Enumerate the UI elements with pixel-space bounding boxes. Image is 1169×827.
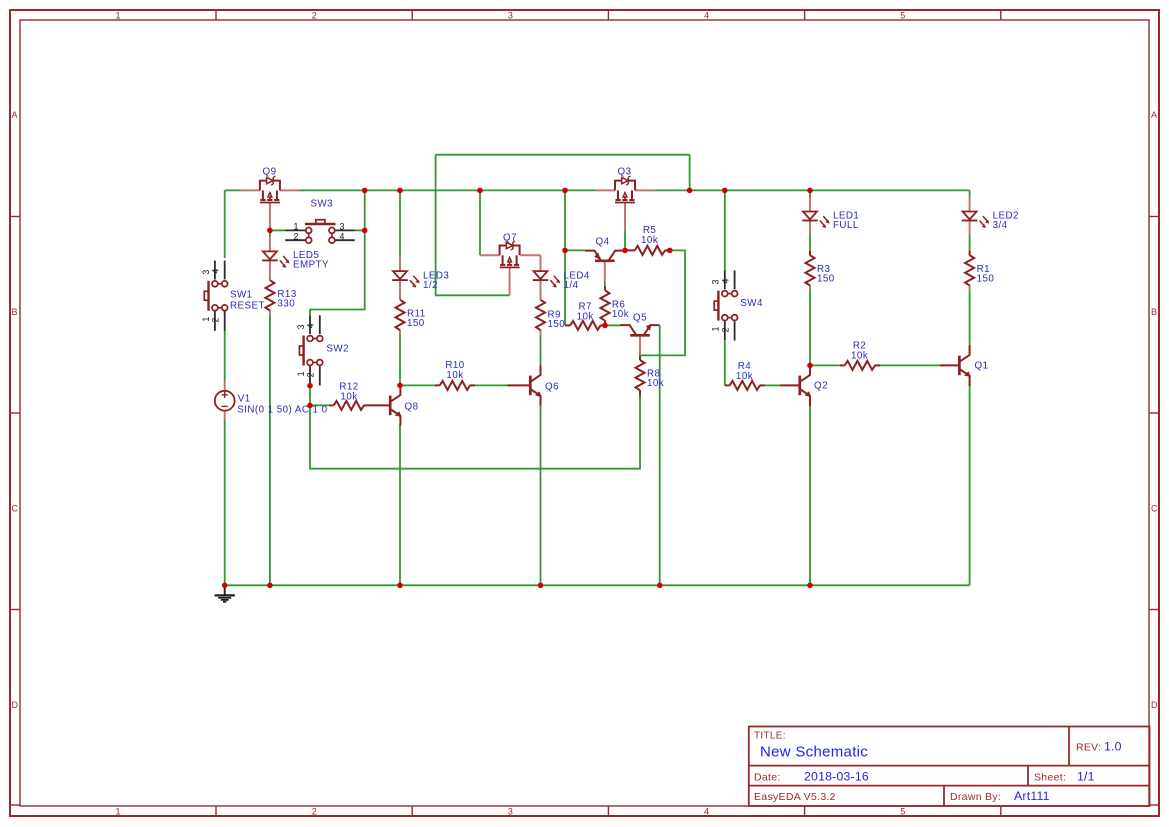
svg-text:A: A [12,110,18,120]
wire R5 right to Q5 base [640,250,685,355]
wire R12 left lead [310,404,330,406]
svg-text:1/4: 1/4 [564,280,579,291]
svg-text:Sheet:: Sheet: [1034,771,1066,783]
svg-text:EMPTY: EMPTY [293,260,329,271]
svg-text:5: 5 [900,807,905,817]
resistor R2 10k (horizontal) [840,361,880,370]
wire Q4 emitter link [565,249,586,251]
transistor Q3 (P-MOSFET) [596,176,655,231]
svg-text:D: D [12,700,19,710]
wire R10 left [400,384,435,386]
svg-text:Q3: Q3 [618,167,632,178]
wire R11 bottom to junction [399,335,401,385]
node R12 branch [307,403,313,409]
wire SW2 bottom to R12 junction [309,386,311,406]
LED LED3 [392,256,420,295]
svg-text:2: 2 [721,327,731,332]
wire Q5 base joint [639,355,641,359]
LED LED2 [962,197,990,236]
wire R9 bottom to Q6 collector [540,335,542,366]
svg-text:150: 150 [817,274,835,285]
svg-text:Q6: Q6 [545,382,559,393]
svg-text:1: 1 [115,807,120,817]
svg-text:C: C [12,504,19,514]
svg-text:3: 3 [711,279,721,284]
transistor Q7 (P-MOSFET) [480,241,541,295]
frame column ticks top [216,10,1001,20]
resistor R10 10k (horizontal) [435,381,475,390]
svg-text:4: 4 [211,268,221,273]
svg-text:B: B [1151,307,1157,317]
node ground bus x270 [267,583,273,589]
wire SW3 left link [270,229,285,231]
svg-text:C: C [1151,504,1158,514]
svg-text:330: 330 [277,299,295,310]
wire R4 to Q2 base [765,384,781,386]
svg-text:10k: 10k [446,370,463,381]
node bus x565 [562,188,568,194]
switch SW2 [299,315,322,385]
wire V1 to ground bus [224,420,226,586]
svg-text:New Schematic: New Schematic [760,744,868,761]
node bus x810 [807,188,813,194]
resistor R11 150 (vertical) [396,295,405,335]
wire Q2 emitter to ground bus [809,406,811,585]
svg-text:4: 4 [704,10,709,20]
wire SW4 top from bus [724,190,726,270]
resistor R13 330 (vertical) [265,275,274,315]
wire Q5 emitter to ground bus [659,325,661,585]
JUNCTION DOTS [222,188,813,589]
switch SW3 (horizontal) [285,220,355,243]
node ground bus x660 [657,583,663,589]
svg-text:Q9: Q9 [263,167,277,178]
wire SW4 bottom to R4 [724,341,726,385]
svg-text:3: 3 [508,10,513,20]
svg-text:RESET: RESET [230,300,265,311]
pin numbers SW1 [201,268,221,322]
svg-text:4: 4 [340,231,345,241]
transistor Q1 (NPN) [940,346,971,386]
node SW2 bottom [307,383,313,389]
wire R12 junction down and across to R8 bottom [310,396,640,469]
svg-text:1: 1 [115,10,120,20]
transistor Q5 (NPN rotated) [620,324,659,356]
node bus x725 [722,188,728,194]
svg-text:D: D [1151,700,1158,710]
svg-text:1.0: 1.0 [1104,740,1122,754]
node R7 R6 Q5 junction [602,323,608,329]
wire Q2 collector junction to R2 [810,364,840,366]
pin numbers SW3 [294,221,345,241]
svg-text:2: 2 [294,231,299,241]
node bus x690 [687,188,693,194]
title block [749,727,1150,807]
frame row ticks right [1149,217,1159,806]
svg-text:SW3: SW3 [311,199,334,210]
svg-text:A: A [1151,110,1157,120]
wire Q8 emitter to ground bus [399,426,401,586]
svg-text:5: 5 [900,10,905,20]
svg-text:150: 150 [548,319,566,330]
node SW3 right junction [362,228,368,234]
node Q4 collector / Q3 gate / R5 [622,248,628,254]
svg-text:V1: V1 [238,394,251,405]
wire R3 bottom to Q2 collector junction [809,291,811,366]
node ground bus x540 [538,583,544,589]
wire SW1 to V1 [224,331,226,381]
svg-text:10k: 10k [612,309,629,320]
LED LED5 [262,237,290,275]
frame column ticks bottom [216,806,1001,816]
wire LED2 top from bus corner [969,190,971,197]
wire main bus left segment [225,189,241,191]
transistor Q9 (P-MOSFET) [241,176,299,230]
svg-text:Q4: Q4 [596,237,610,248]
svg-text:10k: 10k [851,351,868,362]
svg-text:1/1: 1/1 [1077,769,1095,783]
svg-text:150: 150 [407,318,425,329]
LED LED1 [802,197,830,236]
svg-text:10k: 10k [647,378,664,389]
svg-text:3: 3 [508,807,513,817]
svg-text:2: 2 [312,807,317,817]
wire x565 drop bus to R7 [564,190,566,325]
ground symbol [215,585,235,602]
wire R13 bottom to ground bus [269,315,271,585]
transistor Q6 (NPN) [507,366,541,406]
resistor R4 10k (horizontal) [725,381,765,390]
frame row letters left [12,110,19,710]
svg-text:2: 2 [306,372,316,377]
svg-text:SW1: SW1 [230,290,253,301]
resistor R8 10k (vertical) [636,355,645,395]
svg-text:Q5: Q5 [633,313,647,324]
resistor R3 150 (vertical) [806,235,815,291]
svg-text:1: 1 [711,326,721,331]
frame column numbers bottom [115,807,905,817]
svg-text:SW2: SW2 [326,344,349,355]
resistor R6 10k (vertical) [601,286,610,325]
resistor R9 150 (vertical) [536,295,545,335]
wire Q1 emitter to ground bus [969,386,971,585]
svg-text:Q2: Q2 [814,381,828,392]
resistor R1 150 (vertical) [965,235,974,291]
wire R2 right to Q1 base [880,364,940,366]
node ground bus x400 [397,583,403,589]
node Q2 collector junction [807,363,813,369]
wire top loop left drop to Q7 gate [436,155,510,296]
svg-text:Art111: Art111 [1014,789,1050,803]
node SW3 left junction [267,228,273,234]
wire R7 R6 junction to Q5 collector [605,324,621,326]
svg-text:1: 1 [296,371,306,376]
wire x365 riser bus to SW3 [364,190,366,230]
svg-text:2018-03-16: 2018-03-16 [804,769,869,783]
svg-text:4: 4 [306,323,316,328]
frame row letters right [1151,110,1158,710]
transistor Q2 (NPN) [780,366,811,406]
node bus x365 [362,188,368,194]
node R5 right [667,248,673,254]
svg-text:3/4: 3/4 [993,220,1008,231]
wire R1 bottom to Q1 collector [969,291,971,347]
pin numbers SW4 [711,278,731,332]
node ground bus x810 [807,583,813,589]
svg-text:10k: 10k [736,371,753,382]
resistor R7 10k (horizontal) [565,321,605,330]
wire top loop right drop to bus [689,155,691,191]
wire SW3 right link [355,229,365,231]
voltage source V1 [215,381,235,420]
svg-text:1: 1 [294,221,299,231]
svg-text:Q1: Q1 [975,361,989,372]
svg-text:10k: 10k [641,235,658,246]
svg-text:REV:: REV: [1076,742,1101,754]
svg-text:TITLE:: TITLE: [754,731,786,742]
svg-text:SW4: SW4 [740,298,763,309]
wire LED3 top from bus [399,190,401,256]
wire bottom ground bus [225,584,970,586]
switch SW4 [714,270,737,340]
svg-text:Date:: Date: [754,771,781,783]
svg-text:B: B [12,307,18,317]
node R11 R10 Q8 junction [397,383,403,389]
node Q4 emitter branch [562,248,568,254]
svg-text:SIN(0 1 50) AC 1 0: SIN(0 1 50) AC 1 0 [237,404,327,415]
switch SW1 [204,261,227,331]
node bus x480 [477,188,483,194]
svg-text:Q7: Q7 [503,233,517,244]
svg-text:10k: 10k [340,392,357,403]
svg-text:3: 3 [296,324,306,329]
svg-text:Drawn By:: Drawn By: [950,791,1001,803]
svg-text:4: 4 [721,278,731,283]
wire R10 right to Q6 base [475,384,508,386]
LABELS [201,167,1019,416]
svg-text:2: 2 [211,317,221,322]
svg-text:10k: 10k [577,312,594,323]
node ground tap [222,583,228,589]
wire SW3 pin1 gap [269,230,271,237]
wire left rail above SW1 [224,190,226,258]
svg-text:3: 3 [340,221,345,231]
transistor Q4 (PNP rotated) [585,251,624,281]
svg-text:1: 1 [201,316,211,321]
transistor Q8 (NPN) [368,385,402,425]
svg-text:EasyEDA V5.3.2: EasyEDA V5.3.2 [754,791,836,803]
wire top loop horizontal [436,154,690,156]
svg-text:Q8: Q8 [405,402,419,413]
svg-text:1/2: 1/2 [423,280,438,291]
wire R6 bottom junction [604,322,606,326]
wire Q7 drain drop from bus [479,190,481,255]
svg-text:4: 4 [704,807,709,817]
wire Q3 gate link [624,231,626,251]
pin numbers SW2 [296,323,316,377]
wire main bus Q3 to right end [655,189,970,191]
wire main bus Q9 to Q3 [299,189,596,191]
node bus x400 [397,188,403,194]
resistor R5 10k (horizontal) [625,246,670,255]
wire Q4 base gap [604,281,606,287]
LED LED4 [533,256,561,295]
svg-text:3: 3 [201,269,211,274]
wire LED1 top from bus [809,190,811,197]
svg-text:150: 150 [977,274,995,285]
wire Q6 emitter to ground bus [540,406,542,586]
wire x365 down to SW2 [310,230,365,315]
svg-text:2: 2 [312,10,317,20]
resistor R12 10k (horizontal) [329,401,368,410]
frame column numbers top [115,10,905,20]
frame row ticks left [10,217,20,806]
svg-text:FULL: FULL [833,220,859,231]
